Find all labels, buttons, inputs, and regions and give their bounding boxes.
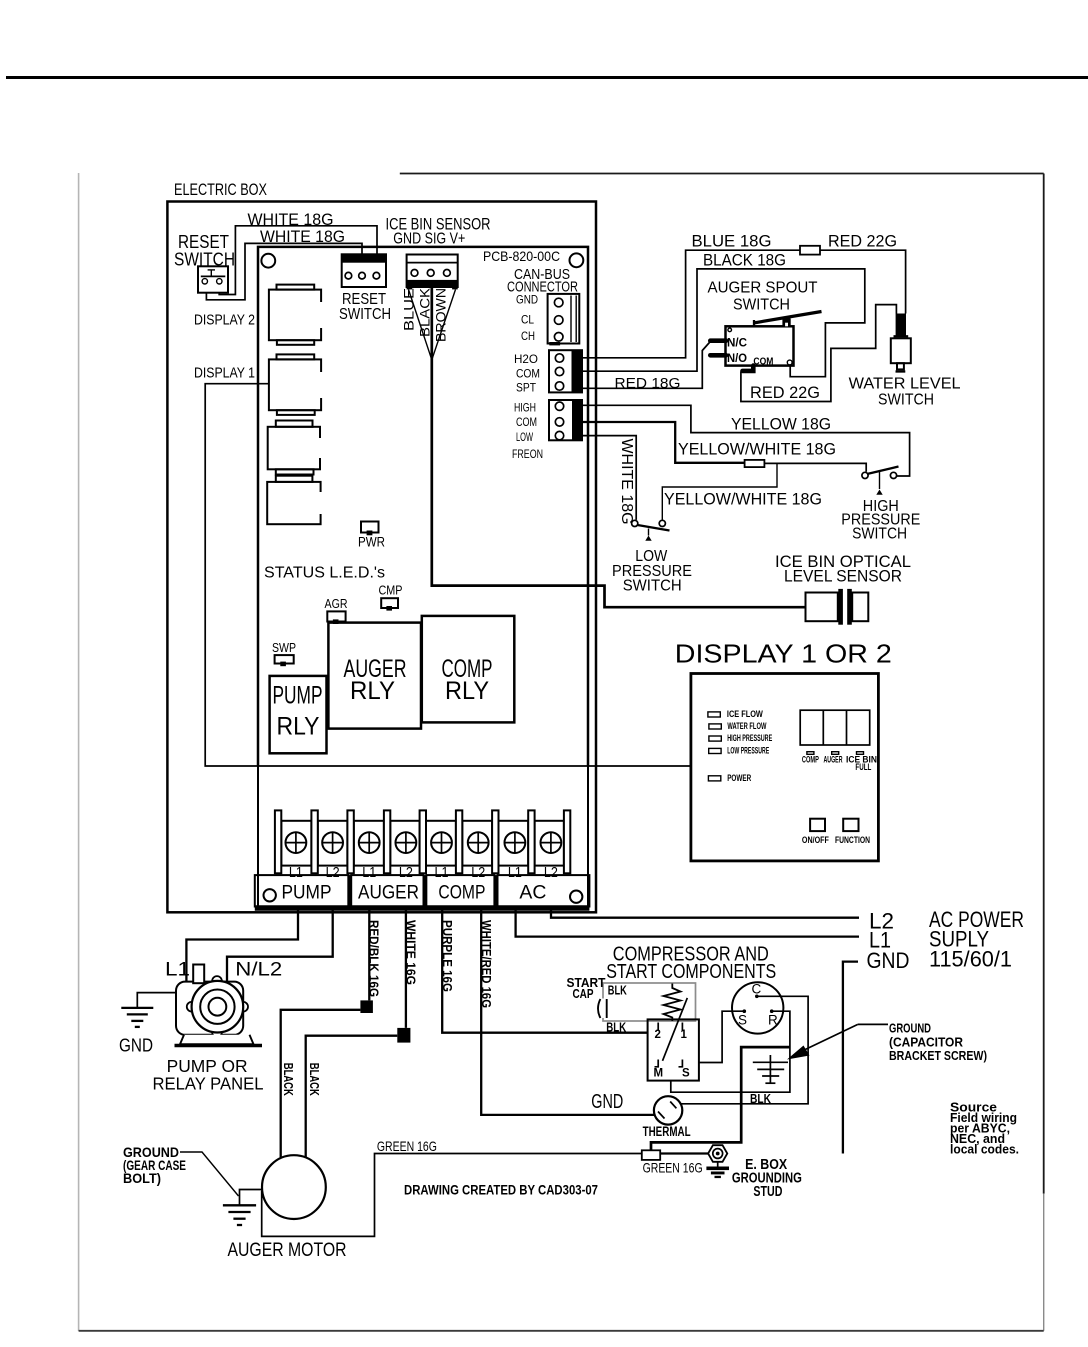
auger motor M2 <box>262 1155 326 1219</box>
terminal S <box>743 1009 747 1013</box>
PCB mounting hole top-right <box>570 253 584 267</box>
terminal strip TB1 <box>275 810 570 873</box>
svg-text:BLK: BLK <box>606 1020 626 1035</box>
wire auger L1 RED/BLK 16G <box>368 909 370 1000</box>
svg-text:GREEN 16G: GREEN 16G <box>377 1138 437 1154</box>
separator bar 1 <box>275 810 281 873</box>
wire BLACK: junction 2 to auger motor <box>306 1036 398 1162</box>
svg-text:SWP: SWP <box>272 641 296 655</box>
top header rule <box>6 76 1088 79</box>
terminal cell 6 <box>462 821 492 866</box>
svg-text:SWITCH: SWITCH <box>878 392 934 409</box>
panel LED HIGH PRESSURE <box>709 736 721 741</box>
relay actuator diagonal <box>663 998 688 1061</box>
separator bar 3 <box>347 810 353 873</box>
wire AC L2 <box>551 909 859 918</box>
auger motor ground stub <box>240 1190 263 1206</box>
wire S to relay <box>699 1011 744 1062</box>
svg-text:AUGER: AUGER <box>824 755 843 765</box>
separator bar 6 <box>456 810 462 873</box>
svg-text:BRACKET SCREW): BRACKET SCREW) <box>889 1048 987 1063</box>
svg-text:BLACK: BLACK <box>307 1063 321 1096</box>
svg-text:STATUS L.E.D.'s: STATUS L.E.D.'s <box>264 565 385 582</box>
wire WHITE 18G upper: reset switch to board reset connector <box>219 226 377 295</box>
svg-text:LEVEL SENSOR: LEVEL SENSOR <box>784 568 902 586</box>
svg-text:LOW: LOW <box>516 430 533 444</box>
svg-text:COMP: COMP <box>438 882 485 904</box>
pointer line to gear case bolt <box>180 1152 239 1196</box>
wire pump N/L2 <box>227 909 333 982</box>
svg-text:FULL: FULL <box>855 762 871 772</box>
wire BLUE 18G / RED 22G: H2O pin to water level switch <box>582 250 906 358</box>
compressor motor M3 circle <box>732 982 783 1033</box>
junction connector on auger L2 <box>397 1028 410 1043</box>
wire GREEN 16G from auger motor <box>262 1154 642 1237</box>
wire BLACK: junction to auger motor <box>281 1010 361 1158</box>
black divider COMP/AC <box>494 875 499 906</box>
svg-text:COM: COM <box>516 415 537 429</box>
wire comp L1 PURPLE 16G to start relay <box>442 909 647 1033</box>
separator bar 7 <box>492 810 498 873</box>
panel LED COMP <box>807 752 814 755</box>
high pressure switch S5 <box>862 467 899 495</box>
wire RED 22G: spout switch COM to water level switch <box>741 305 897 402</box>
svg-text:C: C <box>752 982 762 997</box>
svg-text:DRAWING CREATED BY CAD303-07: DRAWING CREATED BY CAD303-07 <box>404 1183 598 1198</box>
svg-text:CH: CH <box>521 329 535 343</box>
relay K2 AUGER RLY <box>328 623 421 729</box>
wire BLUE lead of ice bin sensor cable <box>409 290 432 360</box>
svg-text:CMP: CMP <box>379 584 403 598</box>
capacitor C1 <box>597 999 610 1019</box>
svg-text:BOLT): BOLT) <box>123 1170 161 1186</box>
drawing frame bottom <box>79 1330 1044 1332</box>
svg-text:START COMPONENTS: START COMPONENTS <box>606 961 776 983</box>
wire R to relay bottom <box>671 1011 790 1092</box>
screw terminal 8 <box>541 832 562 853</box>
wire from fuse F2 to high pressure switch <box>764 463 866 471</box>
svg-text:FREON: FREON <box>512 447 543 461</box>
drawing frame right <box>1043 174 1045 1194</box>
svg-text:RED/BLK 16G: RED/BLK 16G <box>367 920 381 997</box>
wire connector to grounding stud <box>660 1152 708 1154</box>
water connector J2 (H2O/COM/SPT) <box>549 350 582 392</box>
terminal cell 7 <box>499 821 529 866</box>
svg-text:FUNCTION: FUNCTION <box>835 835 870 845</box>
panel button ON/OFF <box>810 819 825 831</box>
separator bar 4 <box>384 810 390 873</box>
svg-text:BLACK 18G: BLACK 18G <box>703 252 786 270</box>
on-board reset switch connector J5 <box>342 254 386 287</box>
start winding coil <box>664 984 681 1022</box>
svg-text:ELECTRIC BOX: ELECTRIC BOX <box>174 181 267 199</box>
separator bar 5 <box>420 810 426 873</box>
pointer arrow to capacitor bracket screw <box>858 1023 888 1025</box>
svg-text:STUD: STUD <box>753 1184 782 1200</box>
wire GND supply <box>843 962 858 1154</box>
wire RED 18G: SPT pin to auger spout switch N/C <box>582 342 711 389</box>
terminal C <box>755 995 759 999</box>
relay K3 COMP RLY <box>422 616 515 723</box>
wire BLACK 18G: COM pin to auger spout switch <box>582 269 865 377</box>
fuse F2 inline on YELLOW/WHITE wire <box>745 460 765 467</box>
terminal cell 4 <box>390 821 419 866</box>
svg-text:HIGH: HIGH <box>514 401 536 415</box>
svg-text:L1: L1 <box>289 864 303 881</box>
svg-text:WHITE 16G: WHITE 16G <box>404 920 418 985</box>
strip mounting hole left <box>264 889 276 901</box>
wire YELLOW/WHITE 18G: COM(freon) pin to fuse and switches <box>582 422 745 463</box>
group box PUMP <box>255 875 349 906</box>
display connector J7 (DISPLAY 2) <box>269 285 321 345</box>
wire pump L1 <box>186 909 298 981</box>
wire C to thermal (BLK) <box>682 996 809 1104</box>
svg-text:RED 22G: RED 22G <box>750 384 820 402</box>
svg-text:RLY: RLY <box>445 677 489 705</box>
pump M1 <box>175 965 263 1046</box>
connector body right-edge notches <box>317 302 325 514</box>
svg-text:N/C: N/C <box>727 338 747 350</box>
svg-text:CAP: CAP <box>573 986 594 1001</box>
terminal cell 8 <box>535 821 564 866</box>
screw terminal 7 <box>505 832 526 853</box>
reset switch RS1 (external) <box>198 266 228 292</box>
wire WHITE 18G: LOW pin to low pressure switch <box>582 436 637 520</box>
fuse F1 inline on RED 22G wire <box>800 246 820 255</box>
panel LED POWER <box>708 776 720 781</box>
wire comp L2 WHITE/RED 16G to thermal <box>481 909 654 1115</box>
svg-text:GND SIG V+: GND SIG V+ <box>393 231 465 248</box>
svg-text:WHITE 18G: WHITE 18G <box>260 228 345 246</box>
LED PWR <box>361 522 379 536</box>
svg-text:BLK: BLK <box>750 1091 771 1106</box>
svg-text:RLY: RLY <box>350 677 395 705</box>
label GROUND (CAPACITOR BRACKET SCREW) <box>889 1021 987 1064</box>
panel LED LOW PRESSURE <box>709 748 721 753</box>
svg-text:L2: L2 <box>471 864 485 881</box>
svg-text:PUMP: PUMP <box>273 682 323 710</box>
panel LED ICE FLOW <box>708 712 720 717</box>
svg-text:SWITCH: SWITCH <box>339 306 391 323</box>
group box COMP <box>426 875 494 906</box>
svg-text:WHITE/RED 16G: WHITE/RED 16G <box>479 920 493 1008</box>
display connector J9 <box>268 421 320 475</box>
separator bar 8 <box>528 810 534 873</box>
svg-text:BLACK: BLACK <box>418 288 433 337</box>
svg-text:local codes.: local codes. <box>950 1143 1019 1157</box>
freon connector J3 (HIGH/COM/LOW) <box>549 400 582 440</box>
ice bin optical level sensor U2 <box>806 589 869 625</box>
E box grounding stud (hex) <box>708 1145 727 1162</box>
CAN-BUS connector J1 <box>548 294 580 346</box>
terminal cell 5 <box>426 821 456 866</box>
svg-text:SPT: SPT <box>516 381 537 395</box>
svg-text:BLACK: BLACK <box>281 1063 295 1096</box>
svg-text:WATER FLOW: WATER FLOW <box>727 721 766 731</box>
ELECTRIC BOX enclosure <box>167 202 596 913</box>
svg-text:RED 22G: RED 22G <box>828 233 897 251</box>
panel LED WATER FLOW <box>709 724 721 729</box>
wire BROWN lead of ice bin sensor cable <box>432 290 456 360</box>
svg-text:CL: CL <box>521 313 534 327</box>
relay terminal 2 <box>657 1023 659 1032</box>
ice bin sensor connector J6 <box>407 255 458 290</box>
screw terminal 6 <box>468 832 489 853</box>
svg-text:M: M <box>654 1068 664 1080</box>
svg-text:DISPLAY 1: DISPLAY 1 <box>194 365 255 382</box>
svg-text:L1: L1 <box>508 864 522 881</box>
black divider PUMP/AUGER <box>347 875 352 906</box>
svg-text:AUGER MOTOR: AUGER MOTOR <box>228 1240 347 1261</box>
drawing frame top <box>400 173 1044 175</box>
svg-text:L2: L2 <box>326 864 340 881</box>
svg-text:AUGER SPOUT: AUGER SPOUT <box>708 280 818 297</box>
junction connector on auger L1 <box>360 1000 373 1013</box>
terminal cell 3 <box>354 821 384 866</box>
svg-text:LOW PRESSURE: LOW PRESSURE <box>727 746 769 756</box>
svg-text:COMP: COMP <box>802 755 819 765</box>
ground symbol (pump) <box>121 1008 153 1027</box>
svg-text:COM: COM <box>516 367 540 381</box>
svg-text:SWITCH: SWITCH <box>733 297 790 314</box>
separator bar 2 <box>311 810 317 873</box>
strip bottom heavy bar <box>255 905 590 911</box>
separator bar 9 <box>564 810 570 873</box>
svg-text:R: R <box>768 1013 778 1028</box>
svg-text:RED 18G: RED 18G <box>615 375 681 392</box>
svg-text:AUGER: AUGER <box>358 882 419 904</box>
terminal labels L1 L2 row <box>289 864 558 881</box>
svg-text:DISPLAY 2: DISPLAY 2 <box>194 312 255 329</box>
group box AC <box>498 875 590 906</box>
display connector J10 <box>267 476 320 525</box>
svg-text:SWITCH: SWITCH <box>623 578 682 595</box>
svg-text:N/O: N/O <box>727 353 747 365</box>
svg-text:GROUND: GROUND <box>889 1021 931 1036</box>
svg-text:SWITCH: SWITCH <box>852 526 907 543</box>
grounding stud ground symbol <box>706 1162 729 1178</box>
PCB-820-00C board outline <box>258 247 588 766</box>
svg-text:GREEN 16G: GREEN 16G <box>643 1160 703 1176</box>
auger spout switch S2 <box>710 312 821 371</box>
svg-text:H2O: H2O <box>514 352 538 366</box>
wire display cable: connector J8 to DISPLAY 1 OR 2 panel <box>205 384 691 766</box>
LED AGR <box>327 611 345 624</box>
7-segment display window <box>800 710 870 745</box>
svg-text:AGR: AGR <box>325 597 348 611</box>
svg-text:RLY: RLY <box>277 713 320 741</box>
label GROUND (GEAR CASE BOLT) <box>123 1144 186 1186</box>
display connector J8 (DISPLAY 1) <box>269 354 321 415</box>
screw terminal 5 <box>431 832 452 853</box>
black divider AUGER/COMP <box>423 875 428 906</box>
svg-text:COM: COM <box>753 356 773 368</box>
label Source Field wiring note <box>950 1101 1019 1157</box>
wire auger L2 WHITE 16G <box>405 909 407 1028</box>
svg-text:AC: AC <box>519 882 546 904</box>
svg-text:L1: L1 <box>435 864 449 881</box>
group box AUGER <box>351 875 423 906</box>
low pressure switch S4 <box>632 520 670 540</box>
svg-text:GND: GND <box>119 1035 153 1056</box>
svg-text:2: 2 <box>655 1029 661 1041</box>
wire YELLOW 18G: HIGH pin to high pressure switch <box>582 405 910 476</box>
screw terminal 4 <box>396 832 417 853</box>
svg-text:S: S <box>738 1013 747 1028</box>
svg-text:SWITCH: SWITCH <box>174 249 235 270</box>
svg-text:RELAY PANEL: RELAY PANEL <box>153 1074 264 1094</box>
svg-text:WATER LEVEL: WATER LEVEL <box>849 376 961 393</box>
svg-text:POWER: POWER <box>727 773 751 783</box>
svg-text:BLUE 18G: BLUE 18G <box>692 233 772 251</box>
svg-text:YELLOW/WHITE 18G: YELLOW/WHITE 18G <box>678 441 836 459</box>
svg-text:ICE FLOW: ICE FLOW <box>727 709 763 719</box>
wire branch YELLOW/WHITE 18G to low pressure switch <box>662 463 777 520</box>
svg-text:PCB-820-00C: PCB-820-00C <box>483 248 560 264</box>
relay terminal S <box>679 1060 683 1067</box>
svg-text:GND: GND <box>591 1091 623 1113</box>
svg-text:HIGH PRESSURE: HIGH PRESSURE <box>727 733 772 743</box>
screw terminal 3 <box>359 832 380 853</box>
inline connector on GREEN 16G <box>642 1150 660 1160</box>
wire WHITE 18G lower: reset switch to board reset connector <box>206 243 362 299</box>
start capacitor box <box>603 983 696 1021</box>
terminal R <box>770 1009 774 1013</box>
PCB mounting hole top-left <box>261 254 275 268</box>
terminal cell 1 <box>281 821 311 866</box>
svg-text:YELLOW/WHITE 18G: YELLOW/WHITE 18G <box>664 491 822 509</box>
svg-text:THERMAL: THERMAL <box>643 1124 691 1139</box>
svg-text:DISPLAY 1 OR 2: DISPLAY 1 OR 2 <box>675 639 892 669</box>
svg-text:L2: L2 <box>544 864 558 881</box>
start relay box <box>648 1019 699 1080</box>
wire ice bin sensor cable to optical sensor <box>432 288 806 608</box>
water level switch S3 <box>891 314 911 372</box>
svg-text:L1: L1 <box>362 864 376 881</box>
thermal protector <box>654 1096 682 1124</box>
screw terminal 2 <box>322 832 343 853</box>
panel button FUNCTION <box>843 819 858 831</box>
svg-text:BLK: BLK <box>608 983 627 998</box>
relay K1 PUMP RLY <box>270 676 327 753</box>
drawing frame left <box>78 173 80 1331</box>
ground symbol (auger motor) <box>223 1205 256 1225</box>
pump ground wire <box>137 993 176 1008</box>
screw terminal 1 <box>286 832 307 853</box>
svg-text:PUMP: PUMP <box>282 882 332 904</box>
wire AC L1 <box>516 909 859 937</box>
svg-text:BLUE: BLUE <box>402 288 417 331</box>
svg-text:GND: GND <box>867 948 910 973</box>
svg-text:GND: GND <box>516 293 538 307</box>
terminal cell 2 <box>318 821 348 866</box>
svg-text:PURPLE 16G: PURPLE 16G <box>440 920 454 992</box>
svg-text:S: S <box>682 1068 690 1080</box>
svg-text:PWR: PWR <box>358 534 385 550</box>
svg-text:WHITE 18G: WHITE 18G <box>248 211 334 229</box>
strip mounting hole right <box>570 891 582 903</box>
svg-text:WHITE 18G: WHITE 18G <box>618 439 635 525</box>
relay terminal M <box>655 1060 659 1067</box>
svg-text:BROWN: BROWN <box>434 288 449 342</box>
ground symbol (capacitor bracket) <box>753 1055 788 1084</box>
svg-text:YELLOW 18G: YELLOW 18G <box>731 416 831 434</box>
relay terminal 1 <box>681 1023 683 1032</box>
svg-text:N/L2: N/L2 <box>235 960 282 981</box>
svg-text:ON/OFF: ON/OFF <box>802 835 829 845</box>
panel LED AUGER <box>832 752 839 755</box>
svg-text:L1: L1 <box>165 960 190 981</box>
wire ground box to green wire connector <box>651 1047 790 1150</box>
svg-text:L2: L2 <box>399 864 413 881</box>
LED SWP <box>275 655 294 666</box>
LED CMP <box>381 598 398 610</box>
svg-text:115/60/1: 115/60/1 <box>929 947 1012 972</box>
panel LED ICE BIN FULL <box>857 752 864 755</box>
svg-text:1: 1 <box>681 1029 688 1041</box>
